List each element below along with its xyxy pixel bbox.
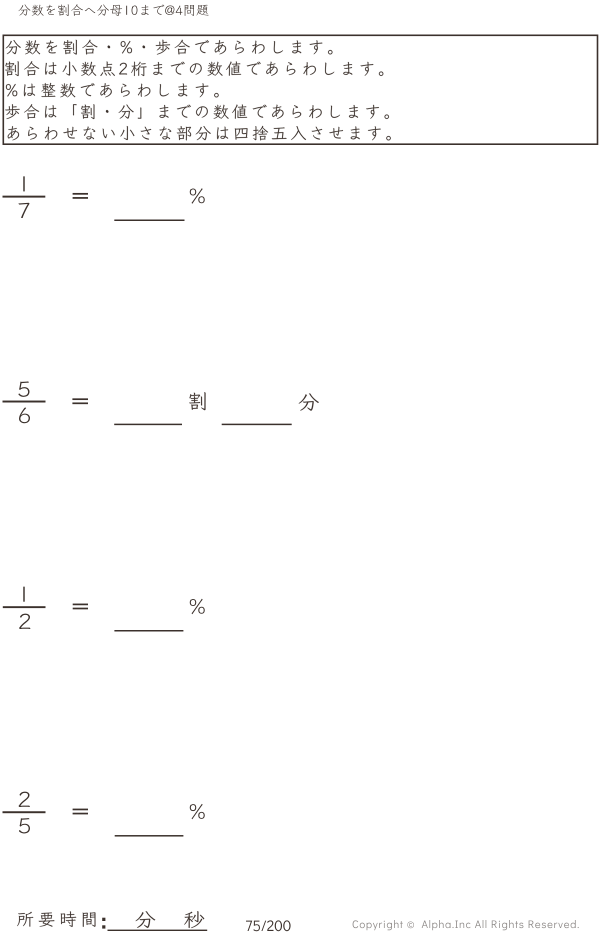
footer minutes kanji — [136, 911, 156, 928]
P1 answer blank — [114, 220, 184, 222]
P2 equals bottom bar — [72, 402, 88, 404]
footer time underline — [108, 930, 208, 931]
footer shoyo-jikan — [17, 911, 95, 927]
P2 denominator 6 — [19, 408, 30, 424]
P3 numerator 1 — [23, 587, 24, 602]
P4 equals bottom bar — [73, 813, 88, 815]
P3 denominator 2 — [19, 614, 30, 629]
P4 percent — [190, 804, 205, 819]
footer colon dot top — [102, 918, 105, 921]
P2 bu — [299, 393, 319, 410]
P3 percent — [190, 599, 205, 614]
P2 numerator 5 — [19, 381, 30, 396]
P3 fraction bar — [3, 606, 46, 608]
P2 equals top bar — [72, 398, 88, 400]
instruction line 4 — [5, 104, 389, 119]
instruction line 2 — [5, 61, 383, 76]
P2 fraction bar — [3, 401, 46, 403]
instruction line 3 — [6, 83, 219, 98]
P1 equals top bar — [73, 193, 88, 195]
P3 equals top bar — [73, 604, 88, 606]
P2 wari — [189, 392, 205, 410]
P2 answer blank 1 — [114, 424, 182, 426]
P1 fraction bar — [3, 196, 46, 198]
P4 denominator 5 — [19, 818, 30, 833]
instruction box border — [3, 35, 597, 144]
instruction line 5 — [8, 126, 391, 141]
page number 75/200 — [246, 920, 291, 931]
header title — [18, 4, 208, 16]
P4 answer blank — [115, 835, 184, 837]
P4 fraction bar — [3, 811, 46, 813]
P2 answer blank 2 — [222, 424, 292, 426]
P4 equals top bar — [73, 809, 88, 811]
P1 denominator 7 — [18, 203, 29, 218]
P4 numerator 2 — [19, 792, 30, 807]
P1 numerator 1 — [23, 176, 24, 191]
P1 percent — [190, 188, 205, 203]
P3 answer blank — [114, 630, 183, 632]
copyright — [353, 920, 579, 930]
instruction line 1 — [6, 40, 333, 55]
P3 equals bottom bar — [73, 608, 88, 610]
footer seconds kanji — [184, 911, 204, 928]
footer colon dot bottom — [102, 925, 105, 928]
P1 equals bottom bar — [73, 197, 88, 199]
